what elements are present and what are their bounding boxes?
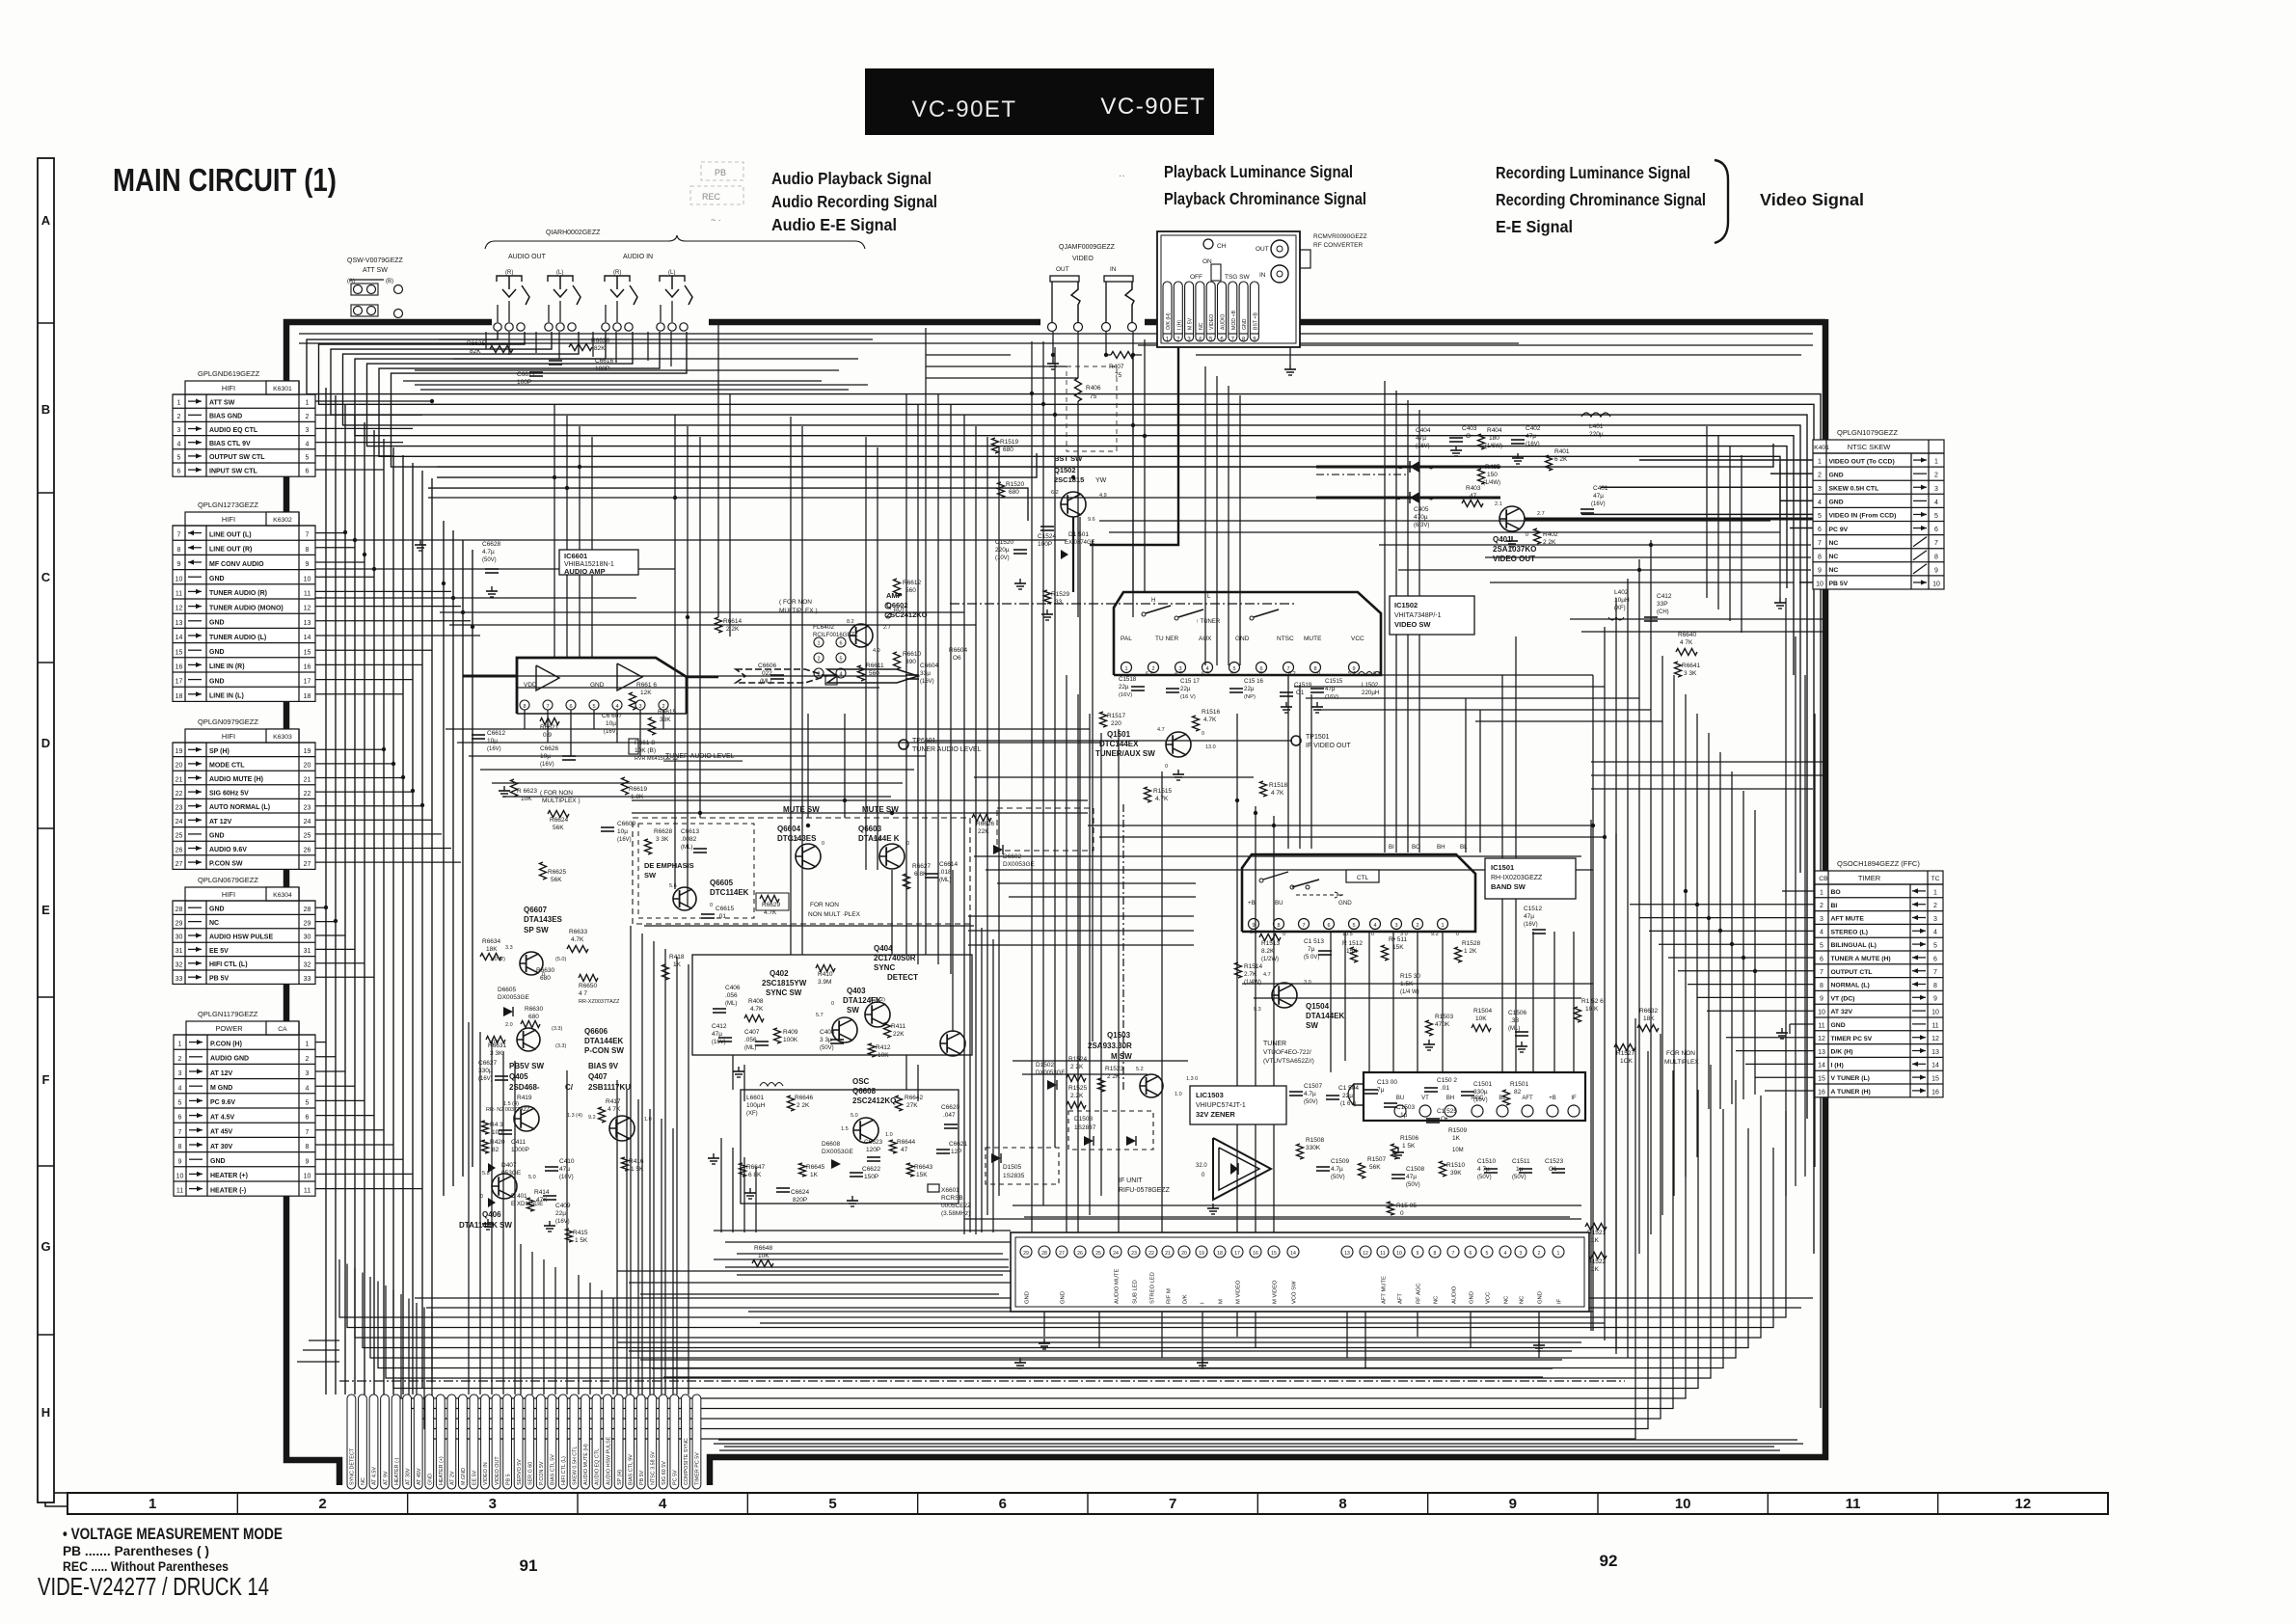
- svg-text:C410: C410: [559, 1158, 575, 1165]
- svg-text:33: 33: [304, 976, 311, 983]
- svg-text:(16V): (16V): [920, 679, 934, 685]
- transistor Q407: [609, 1116, 635, 1141]
- wire right bus vertical 2: [1604, 627, 1606, 1340]
- svg-text:1 5K: 1 5K: [1402, 1143, 1416, 1150]
- wire center vertical 19: [1092, 540, 1094, 1042]
- resistor R6635 82K: [467, 340, 513, 355]
- wire K6304 pin stub 5: [315, 962, 365, 964]
- SYNC block box: [692, 955, 972, 1055]
- svg-text:RIFU-0578GEZZ: RIFU-0578GEZZ: [1119, 1187, 1171, 1194]
- capacitor C6614 .018: [925, 861, 959, 883]
- part code QIARH0002GEZZ bracket: [485, 230, 865, 260]
- wire jack drop b2: [558, 332, 560, 359]
- svg-text:R408: R408: [748, 998, 764, 1005]
- svg-text:R403: R403: [1466, 485, 1481, 492]
- transistor Q404: [940, 1031, 965, 1056]
- svg-text:2: 2: [1934, 473, 1938, 479]
- resistor R1527 10K: [1614, 1044, 1635, 1066]
- wire vertical run 23: [1553, 932, 1555, 1072]
- wire band line 13: [492, 782, 903, 784]
- connector K6304 HIFI: [173, 887, 315, 984]
- svg-text:AFT: AFT: [1522, 1096, 1533, 1101]
- svg-text:6: 6: [1327, 923, 1330, 929]
- wire vertical run 11: [1204, 366, 1206, 665]
- svg-text:• VOLTAGE MEASUREMENT MODE: • VOLTAGE MEASUREMENT MODE: [63, 1526, 283, 1543]
- transistor Q1503 2SA933 M SW: [1088, 1031, 1163, 1097]
- svg-text:10: 10: [1932, 582, 1940, 588]
- svg-text:1: 1: [306, 400, 310, 407]
- svg-text:1.5 (4): 1.5 (4): [503, 1101, 519, 1107]
- wire riser 19: [743, 1157, 745, 1232]
- wire horizontal run 2: [315, 568, 675, 570]
- svg-text:R1527: R1527: [1616, 1050, 1635, 1057]
- svg-text:6: 6: [839, 641, 842, 647]
- resistor R406 75: [1067, 366, 1117, 451]
- resistor R1507 56K: [1359, 1156, 1387, 1178]
- wire vertical run 36: [589, 1283, 591, 1394]
- svg-text:560: 560: [869, 670, 879, 677]
- svg-text:7µ: 7µ: [1308, 946, 1315, 953]
- svg-text:33µ: 33µ: [920, 670, 931, 677]
- wire riser 3: [491, 1042, 493, 1394]
- svg-text:C1520: C1520: [995, 539, 1014, 546]
- svg-text:(10V): (10V): [995, 555, 1010, 561]
- wire riser 10: [649, 1109, 651, 1394]
- svg-text:VHITA7348P/-1: VHITA7348P/-1: [1394, 612, 1442, 619]
- legend text E-E Signal: [1496, 217, 1573, 236]
- svg-text:GND: GND: [210, 1158, 226, 1165]
- svg-text:+: +: [1429, 466, 1433, 473]
- svg-text:2 2K: 2 2K: [1070, 1064, 1084, 1070]
- svg-text:QPLGN1179GEZZ: QPLGN1179GEZZ: [198, 1010, 258, 1018]
- svg-text:32V ZENER: 32V ZENER: [1196, 1110, 1235, 1119]
- svg-text:IC1502: IC1502: [1394, 601, 1418, 609]
- svg-text:13.0: 13.0: [1205, 744, 1216, 750]
- svg-text:Playback Luminance Signal: Playback Luminance Signal: [1164, 162, 1353, 181]
- svg-text:K6304: K6304: [273, 892, 292, 899]
- svg-text:R6630: R6630: [525, 1006, 544, 1013]
- svg-text:3.9M: 3.9M: [818, 979, 831, 986]
- svg-text:MF CONV AUDIO: MF CONV AUDIO: [209, 561, 264, 568]
- svg-text:D6608: D6608: [822, 1141, 841, 1148]
- capacitor C406 .056: [713, 985, 741, 1013]
- svg-text:SP (H): SP (H): [209, 748, 230, 755]
- svg-text:G: G: [41, 1239, 50, 1254]
- svg-text:I (H): I (H): [1831, 1062, 1844, 1069]
- svg-text:(5 0V): (5 0V): [1304, 955, 1319, 961]
- svg-text:23: 23: [304, 805, 311, 812]
- capacitor C6616 100P: [549, 358, 614, 372]
- filter FL6402: [814, 637, 846, 685]
- svg-text:NC: NC: [1829, 554, 1839, 560]
- svg-text:4 7: 4 7: [579, 990, 587, 997]
- dashed box right of mute: [997, 808, 1094, 851]
- ground IF pin 29: [1039, 1339, 1050, 1349]
- wire center vertical 2: [566, 416, 568, 658]
- svg-text:4.9: 4.9: [1099, 493, 1107, 499]
- svg-text:6: 6: [178, 1115, 182, 1122]
- svg-text:220µ: 220µ: [995, 547, 1010, 554]
- wire riser 8: [626, 1090, 628, 1394]
- wire band line 2: [299, 342, 1519, 344]
- svg-text:PB 5V: PB 5V: [209, 976, 230, 983]
- wire rail 8: [714, 1259, 1009, 1260]
- svg-text:C6615: C6615: [716, 906, 735, 912]
- resistor R1514 2.7K: [1235, 962, 1263, 986]
- svg-text:LINE OUT (R): LINE OUT (R): [209, 547, 252, 554]
- svg-text:C1524: C1524: [1038, 533, 1057, 540]
- svg-text:560: 560: [905, 587, 916, 594]
- connector part code QPLGN1179GEZZ: [198, 1010, 258, 1018]
- svg-text:13: 13: [304, 620, 311, 627]
- transistor Q6606 DTA144EK P-CON SW: [517, 1027, 624, 1055]
- svg-text:R4 3: R4 3: [490, 1122, 503, 1128]
- svg-text:R6641: R6641: [1682, 663, 1701, 669]
- svg-text:5.4: 5.4: [1348, 671, 1356, 677]
- svg-text:9: 9: [306, 561, 310, 568]
- wire left bus vertical 1: [325, 388, 327, 1394]
- left ruler A-H: [38, 158, 54, 1502]
- svg-text:R1528: R1528: [1462, 940, 1481, 947]
- svg-text:R6632: R6632: [1639, 1008, 1659, 1015]
- wire jack drop a1: [485, 332, 487, 349]
- svg-text:HEATER (+): HEATER (+): [210, 1173, 248, 1179]
- wire jack drop a2: [535, 332, 537, 353]
- wire amp pin 8 drop: [524, 710, 526, 729]
- wire K6302 pin stub 1: [315, 532, 345, 534]
- svg-text:SER.G 60: SER.G 60: [527, 1462, 533, 1485]
- svg-text:22K: 22K: [978, 828, 989, 835]
- svg-text:Q1501: Q1501: [1107, 730, 1131, 739]
- wire K401 pin 2: [1770, 473, 1813, 474]
- wire POWER pin stub 1: [315, 1042, 326, 1043]
- resistor R6621 0.9: [540, 718, 559, 740]
- label PB5V SW Q405: [509, 1062, 574, 1092]
- svg-text:4.7µ: 4.7µ: [482, 549, 495, 555]
- svg-text:C402: C402: [1526, 425, 1541, 432]
- svg-text:R 1512: R 1512: [1342, 940, 1363, 947]
- svg-text:7: 7: [1820, 969, 1823, 976]
- svg-text:33: 33: [1055, 599, 1063, 606]
- resistor R1504 10K: [1472, 1008, 1493, 1032]
- svg-text:NC: NC: [361, 1477, 366, 1485]
- wire K6302 pin stub 5: [315, 590, 451, 592]
- wire center horizontal 9: [632, 799, 1088, 801]
- capacitor C6613 .0082: [681, 828, 707, 853]
- label Q403 DTA124EK SW: [843, 987, 882, 1015]
- resistor R412 10K: [869, 1043, 891, 1059]
- svg-text:MUTE: MUTE: [1304, 636, 1322, 642]
- svg-text:C407: C407: [744, 1029, 760, 1036]
- wire rail 10: [737, 1274, 1003, 1276]
- svg-text:6.3: 6.3: [1202, 671, 1209, 677]
- svg-text:PAL: PAL: [1121, 636, 1132, 642]
- wire center horizontal 17: [1254, 997, 1581, 999]
- svg-text:AT 30V: AT 30V: [405, 1468, 411, 1485]
- svg-text:6: 6: [177, 469, 181, 475]
- wire center vertical 17: [1273, 816, 1275, 1246]
- svg-text:BIAS CTL 9V: BIAS CTL 9V: [628, 1454, 634, 1485]
- wire center vertical 5: [674, 415, 676, 889]
- svg-text:9.2: 9.2: [1431, 932, 1439, 937]
- svg-text:27: 27: [176, 861, 183, 868]
- svg-text:8: 8: [1434, 1251, 1437, 1257]
- svg-text:C6628: C6628: [482, 541, 501, 548]
- wire center horizontal 11: [644, 925, 974, 927]
- wire amp pin 6 drop: [570, 710, 572, 756]
- svg-text:9: 9: [1417, 1251, 1419, 1257]
- svg-text:C6606: C6606: [758, 663, 777, 669]
- footer PB parentheses: [63, 1544, 209, 1558]
- wire left bus vertical b2: [452, 530, 454, 1186]
- svg-text:PC 9V: PC 9V: [1829, 527, 1849, 533]
- wire amp pin 3 drop: [639, 710, 641, 756]
- wire horizontal run 11: [964, 1218, 1581, 1220]
- wire thick ic1502 feed: [1072, 517, 1074, 592]
- wire thick video in: [1316, 497, 1500, 500]
- svg-text:10K: 10K: [758, 1253, 770, 1259]
- wire center vertical 1: [554, 405, 555, 658]
- svg-text:R404: R404: [1487, 427, 1502, 434]
- svg-text:C408: C408: [820, 1029, 835, 1036]
- svg-text:C6614: C6614: [939, 861, 959, 868]
- wire drop line 3: [865, 437, 867, 870]
- svg-text:10K: 10K: [1475, 1015, 1487, 1022]
- wire horizontal run 12: [714, 1230, 1011, 1232]
- svg-text:VDD: VDD: [524, 682, 537, 689]
- svg-text:STEREO (L): STEREO (L): [1831, 929, 1869, 935]
- wire vertical run 33: [543, 1259, 545, 1394]
- svg-text:IC1501: IC1501: [1491, 863, 1514, 872]
- svg-text:1.0: 1.0: [885, 1132, 893, 1138]
- wire center horizontal 8: [516, 687, 879, 689]
- svg-text:9: 9: [177, 561, 181, 568]
- svg-text:31: 31: [176, 948, 183, 955]
- svg-text:R411: R411: [891, 1023, 905, 1030]
- wire drop line 13: [732, 1055, 734, 1090]
- svg-text:C6604: C6604: [920, 663, 939, 669]
- resistor R1517 220: [1100, 712, 1126, 727]
- wire drop line 1: [790, 417, 792, 955]
- svg-text:10: 10: [1816, 582, 1823, 588]
- test point TP6601: [899, 738, 982, 753]
- svg-text:75: 75: [1090, 393, 1097, 400]
- page number 92: [1600, 1552, 1618, 1570]
- crystal X6601: [928, 1184, 971, 1217]
- resistor R1503 470K: [1426, 1014, 1454, 1036]
- svg-text:C6624: C6624: [791, 1189, 810, 1196]
- wire vertical run 20: [1407, 400, 1409, 853]
- svg-text:(16V): (16V): [487, 746, 501, 752]
- wire rail 12: [303, 1349, 339, 1351]
- svg-text:2.0: 2.0: [505, 1022, 513, 1028]
- wire band line 18: [1009, 896, 1196, 898]
- svg-text:RH-IX0203GEZZ: RH-IX0203GEZZ: [1491, 875, 1543, 881]
- svg-text:1.0: 1.0: [644, 1117, 652, 1123]
- svg-text:470µ: 470µ: [1414, 514, 1428, 521]
- svg-text:L401: L401: [1589, 423, 1604, 430]
- svg-text:(16V): (16V): [1325, 694, 1338, 700]
- svg-text:LINE OUT (L): LINE OUT (L): [209, 531, 252, 538]
- svg-text:BO: BO: [1412, 844, 1420, 851]
- svg-text:E-E Signal: E-E Signal: [1496, 217, 1573, 236]
- wire K6303 pin stub 8: [315, 848, 451, 850]
- svg-text:K401: K401: [1814, 445, 1829, 451]
- capacitor C1526 1000P: [1420, 1235, 1458, 1250]
- capacitor C407 .056: [744, 1029, 769, 1051]
- svg-text:680: 680: [528, 1014, 539, 1020]
- svg-text:SIG 60 5V: SIG 60 5V: [662, 1461, 667, 1485]
- svg-text:DX0053GE: DX0053GE: [498, 994, 530, 1001]
- svg-text:92: 92: [1600, 1552, 1618, 1570]
- wire audio bus 5: [355, 332, 1794, 675]
- wire bottom sweep 13: [432, 1018, 1635, 1439]
- wire POWER pin stub 2: [315, 1056, 336, 1058]
- svg-text:VT: VT: [1421, 1096, 1429, 1101]
- svg-text:5.7: 5.7: [816, 1013, 824, 1018]
- svg-text:4: 4: [306, 1085, 310, 1092]
- ground OSC: [744, 1188, 756, 1199]
- svg-text:0: 0: [1526, 532, 1528, 538]
- svg-text:10: 10: [304, 576, 311, 582]
- wire left bus vertical b3: [462, 540, 464, 1177]
- svg-text:1K: 1K: [1452, 1135, 1461, 1142]
- svg-text:BH: BH: [1446, 1096, 1454, 1101]
- svg-text:47: 47: [1470, 493, 1477, 500]
- svg-text:NC: NC: [1520, 1296, 1526, 1304]
- svg-text:8: 8: [1820, 983, 1823, 989]
- wire thick tuner audio 1: [463, 675, 516, 678]
- wire left bus vertical b1: [443, 521, 445, 1196]
- svg-text:AFT: AFT: [1398, 1293, 1404, 1304]
- svg-text:4: 4: [1934, 500, 1938, 506]
- wire horizontal run 21: [926, 365, 1067, 367]
- svg-text:F: F: [42, 1072, 50, 1087]
- wire TIMER pin 13: [1736, 1050, 1815, 1052]
- svg-text:C6621: C6621: [949, 1141, 968, 1148]
- svg-text:(50V): (50V): [1406, 1182, 1420, 1188]
- svg-text:SP SW: SP SW: [524, 926, 549, 934]
- svg-text:R1513: R1513: [1261, 940, 1281, 947]
- svg-text:6: 6: [999, 1496, 1007, 1512]
- svg-text:220µH: 220µH: [1362, 690, 1379, 696]
- svg-text:4.7µ: 4.7µ: [1304, 1091, 1316, 1097]
- svg-text:4.9: 4.9: [873, 648, 880, 654]
- wire center vertical 29: [807, 714, 809, 818]
- wire center vertical 12: [1054, 347, 1056, 1148]
- wire bottom sweep 2: [347, 1148, 1773, 1328]
- svg-text:R6634: R6634: [482, 938, 501, 945]
- wire mid sweep 3: [640, 1359, 1562, 1361]
- wire band line 21: [415, 1297, 1813, 1299]
- svg-text:(ML): (ML): [681, 845, 692, 851]
- DE-EMPHASIS dashed block: [633, 818, 970, 924]
- svg-text:DE EMPHASIS: DE EMPHASIS: [644, 861, 694, 870]
- svg-text:9: 9: [178, 1158, 182, 1165]
- label TUNER VTUOF4EO: [1263, 1041, 1314, 1065]
- svg-text:16: 16: [1931, 1089, 1939, 1096]
- ground video jack: [1047, 332, 1059, 369]
- svg-text:TUNER/AUX SW: TUNER/AUX SW: [1095, 749, 1155, 758]
- svg-text:5: 5: [306, 1100, 310, 1107]
- svg-text:Audio Recording Signal: Audio Recording Signal: [771, 192, 937, 211]
- svg-text:47µ: 47µ: [1325, 686, 1336, 692]
- svg-text:6 8K: 6 8K: [748, 1172, 762, 1178]
- wire center horizontal 25: [428, 497, 1316, 499]
- resistor R6616 12K: [630, 682, 658, 710]
- svg-text:18: 18: [1217, 1251, 1223, 1257]
- svg-text:BU: BU: [1396, 1096, 1404, 1101]
- svg-text:R6646: R6646: [795, 1095, 814, 1101]
- svg-text:AUDIO 9.6V: AUDIO 9.6V: [209, 847, 247, 853]
- resistor R1528 1.2K: [1455, 940, 1481, 962]
- capacitor C1518 22u: [1119, 676, 1145, 698]
- svg-text:NTSC SKEW: NTSC SKEW: [1848, 443, 1892, 451]
- svg-text:RIF M: RIF M: [1167, 1288, 1173, 1304]
- svg-text:15: 15: [1271, 1251, 1277, 1257]
- transistor Q406 DTA114EK SW: [459, 1174, 517, 1230]
- svg-text:220µ: 220µ: [1589, 431, 1604, 438]
- svg-text:PB ....... Parentheses ( ): PB ....... Parentheses ( ): [63, 1544, 209, 1558]
- diode D401 XD115GE: [488, 1193, 543, 1207]
- wire center vertical 3: [579, 426, 581, 658]
- svg-text:1.3 0: 1.3 0: [1186, 1076, 1198, 1082]
- wire IF pin drop 5: [1236, 1312, 1238, 1337]
- wire K6302 pin stub 2: [315, 547, 355, 549]
- wire center vertical 4: [591, 437, 593, 658]
- svg-text:Video Signal: Video Signal: [1760, 190, 1864, 209]
- svg-text:R6612: R6612: [903, 580, 922, 586]
- svg-text:(50V): (50V): [1512, 1175, 1526, 1180]
- legend icon PB box: [701, 162, 743, 180]
- svg-text:RR- N2 0037TAZZ: RR- N2 0037TAZZ: [486, 1107, 530, 1113]
- svg-text:.33: .33: [1510, 1017, 1519, 1024]
- wire vertical run 16: [1299, 685, 1301, 849]
- label FOR NON MULTIPLEX 2: [808, 902, 861, 918]
- wire IF pin drop 3: [1161, 1312, 1163, 1358]
- svg-text:Q402: Q402: [770, 969, 789, 978]
- wire center horizontal 14: [1088, 825, 1593, 826]
- svg-text:C15 16: C15 16: [1244, 678, 1264, 685]
- resistor R401 6.2K: [1546, 448, 1570, 471]
- svg-text:R1524: R1524: [1068, 1056, 1088, 1063]
- wire riser 13: [1785, 598, 1787, 1196]
- svg-text:C1 525: C1 525: [1437, 1108, 1457, 1115]
- svg-text:2.1: 2.1: [1495, 501, 1502, 507]
- svg-text:Q6603: Q6603: [858, 825, 882, 833]
- svg-text:23: 23: [1131, 1251, 1137, 1257]
- svg-text:R406: R406: [1086, 385, 1101, 392]
- svg-text:2.2K: 2.2K: [1070, 1093, 1084, 1099]
- svg-text:TU NER: TU NER: [1155, 636, 1179, 642]
- connector CA POWER: [174, 1021, 315, 1196]
- wire vertical run 10: [1100, 733, 1102, 1196]
- resistor R420 82: [482, 1139, 505, 1153]
- svg-text:POWER: POWER: [215, 1024, 243, 1033]
- wire horizontal run 1: [315, 539, 1067, 541]
- svg-text:BST SW: BST SW: [1054, 454, 1083, 463]
- svg-text:ATT SW: ATT SW: [363, 267, 388, 274]
- svg-text:VTUOF4EO-722/: VTUOF4EO-722/: [1263, 1049, 1311, 1056]
- wire POWER pin stub 4: [315, 1085, 355, 1087]
- wire vertical run 15: [1287, 675, 1289, 849]
- wire K6301 pin stub 4: [315, 442, 403, 444]
- resistor R6612 560: [894, 579, 922, 596]
- svg-text:0: 0: [906, 841, 909, 847]
- svg-text:GND: GND: [1025, 1291, 1031, 1304]
- svg-text:Audio E-E Signal: Audio E-E Signal: [771, 215, 897, 234]
- svg-text:Audio Playback Signal: Audio Playback Signal: [771, 169, 932, 188]
